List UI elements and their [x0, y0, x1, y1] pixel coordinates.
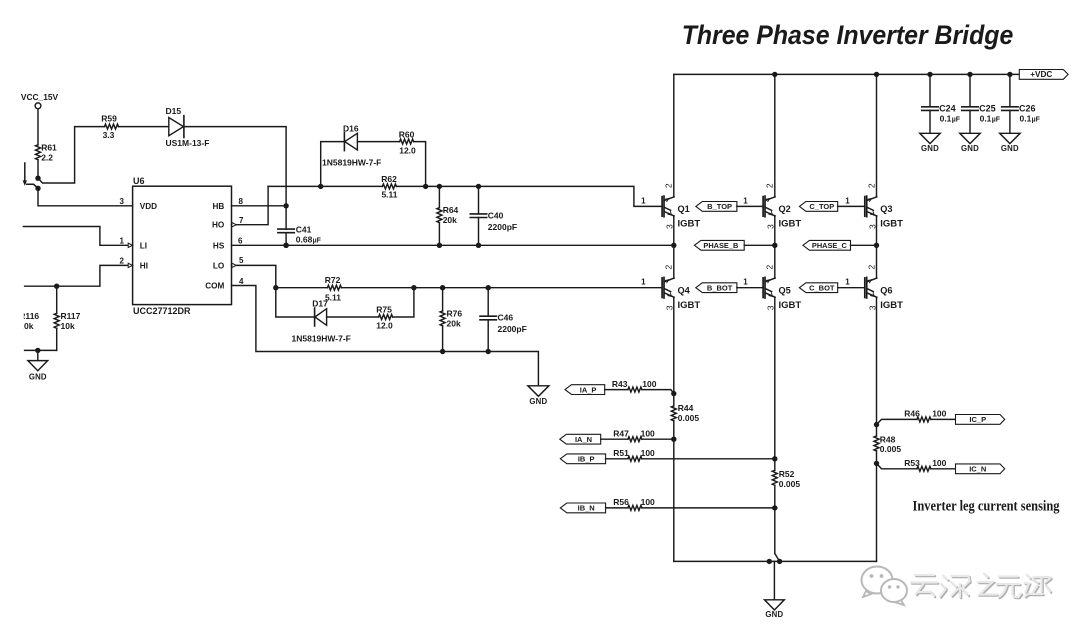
svg-text:20k: 20k — [447, 319, 461, 329]
svg-text:COM: COM — [205, 282, 224, 291]
wire IA_P with resistor R43 — [605, 389, 628, 391]
resistor R76 — [440, 288, 462, 352]
node rail left — [767, 559, 772, 564]
svg-text:100: 100 — [932, 409, 946, 419]
node C46 top — [486, 285, 491, 290]
ground GND main — [765, 561, 785, 619]
capacitor C26 — [1002, 74, 1040, 133]
resistor R72 — [325, 275, 342, 302]
wire Q1 emitter to phase B node — [673, 216, 675, 245]
net label PHASE_B — [694, 240, 744, 250]
svg-text:10k: 10k — [61, 321, 75, 331]
net label IC_P — [956, 415, 1005, 425]
wire top gate net — [268, 185, 382, 187]
wire IB_N with resistor R56 — [606, 507, 628, 509]
svg-text:Q2: Q2 — [779, 204, 791, 214]
node IB_P tap — [772, 456, 777, 461]
svg-text:R53: R53 — [904, 458, 920, 468]
svg-text:1: 1 — [845, 278, 850, 287]
node LO junction — [273, 285, 278, 290]
wire PHASE_C to leg C — [851, 244, 877, 246]
resistor R56 — [613, 497, 655, 510]
svg-text:6: 6 — [238, 236, 243, 245]
resistor R75 — [376, 304, 393, 330]
net label B_TOP — [696, 202, 737, 212]
wire Q4 collector — [673, 245, 675, 278]
svg-text:HO: HO — [212, 221, 225, 230]
wire VDD net — [38, 188, 133, 206]
svg-text:C_BOT: C_BOT — [809, 283, 835, 292]
svg-text:2: 2 — [664, 183, 674, 188]
node HS C41 — [283, 243, 288, 248]
transistor Q5 — [763, 264, 801, 310]
wire R116 R117 bottoms — [25, 349, 57, 351]
svg-text:C26: C26 — [1019, 103, 1036, 113]
node rail C26 — [1007, 72, 1012, 77]
ground GND2 — [528, 386, 549, 397]
ground GND1 — [28, 350, 48, 381]
output arrow LO — [232, 263, 236, 267]
svg-text:100: 100 — [641, 497, 655, 507]
watermark wechat icon — [862, 567, 908, 606]
wire LO pin 5 — [232, 265, 276, 287]
svg-text:5: 5 — [239, 256, 244, 265]
svg-text:0.005: 0.005 — [779, 479, 801, 489]
transistor Q6 — [865, 264, 903, 310]
resistor R60 — [399, 129, 416, 155]
resistor R51 — [613, 448, 655, 461]
svg-text:8: 8 — [239, 197, 244, 206]
svg-text:3: 3 — [766, 305, 776, 310]
resistor R47 — [613, 428, 655, 441]
svg-text:3: 3 — [665, 305, 675, 310]
svg-text:2200pF: 2200pF — [488, 222, 517, 232]
wire COM pin 4 rail — [232, 286, 539, 386]
wire bottom sense rail — [674, 560, 877, 562]
node C46 bottom — [486, 349, 491, 354]
svg-text:IGBT: IGBT — [779, 219, 802, 230]
svg-text:5.11: 5.11 — [381, 189, 397, 199]
svg-text:GND: GND — [961, 144, 979, 153]
wire IA_N with resistor R47 — [601, 438, 628, 440]
node rail Q2 — [772, 72, 777, 77]
svg-text:2200pF: 2200pF — [498, 324, 527, 334]
svg-text:D17: D17 — [312, 298, 328, 308]
node rail Q3 — [874, 72, 879, 77]
node C40 top — [476, 184, 481, 189]
svg-text:R56: R56 — [613, 497, 629, 507]
wire D15 to HB node — [184, 127, 286, 206]
node R76 bottom — [440, 349, 445, 354]
net label PHASE_C — [803, 240, 851, 250]
svg-text:HS: HS — [213, 241, 225, 250]
svg-text:Q1: Q1 — [678, 204, 690, 214]
ground GND C26 — [1000, 133, 1020, 143]
node C40 bottom — [476, 243, 481, 248]
wire Q3 collector — [876, 74, 878, 196]
node IC_N tap — [874, 461, 879, 466]
svg-text:1: 1 — [743, 278, 748, 287]
ground GND C24 — [920, 133, 940, 143]
node IC_P tap — [874, 422, 879, 427]
svg-text:R62: R62 — [381, 174, 397, 184]
svg-text:GND: GND — [921, 144, 939, 153]
net label C_TOP — [799, 202, 837, 212]
op-amp U6 gate driver UCC27712DR — [133, 176, 232, 316]
wire +VDC rail — [674, 73, 1020, 75]
svg-text:VDD: VDD — [140, 202, 157, 211]
wire node A1 to R59 — [38, 127, 105, 183]
wire R52 to bottom rail — [774, 485, 776, 553]
svg-text:IGBT: IGBT — [779, 300, 802, 311]
net label IB_N — [560, 503, 605, 513]
svg-text:IC_N: IC_N — [969, 464, 986, 473]
wire PHASE_B to leg B — [744, 244, 775, 246]
svg-text:3: 3 — [867, 224, 877, 229]
wire Q2 emitter — [774, 216, 776, 245]
diode D16 — [322, 123, 381, 167]
svg-text:GND: GND — [529, 397, 547, 406]
node C41 bottom — [283, 243, 288, 248]
svg-text:IC_P: IC_P — [969, 415, 986, 424]
svg-text:12.0: 12.0 — [399, 145, 416, 155]
resistor R62 — [381, 174, 398, 199]
svg-text:0.005: 0.005 — [678, 413, 700, 423]
net label IA_N — [560, 434, 601, 444]
svg-text:R52: R52 — [779, 469, 795, 479]
svg-text:2: 2 — [664, 264, 674, 269]
svg-text:R75: R75 — [376, 304, 392, 314]
ground GND C25 — [960, 133, 980, 143]
net label IC_N — [956, 464, 1005, 474]
svg-text:2: 2 — [120, 257, 125, 266]
svg-text:D15: D15 — [166, 106, 182, 116]
svg-text:2: 2 — [866, 264, 876, 269]
svg-text:100: 100 — [641, 428, 655, 438]
node phase A midpoint — [671, 243, 676, 248]
node R75 riser — [411, 285, 416, 290]
svg-text:2: 2 — [765, 183, 775, 188]
node R76 top — [440, 285, 445, 290]
wire D16 branch — [321, 142, 345, 187]
svg-text:2.2: 2.2 — [41, 153, 53, 163]
resistor R48 shunt — [874, 435, 901, 455]
svg-text:R48: R48 — [880, 435, 896, 445]
svg-text:100: 100 — [642, 379, 656, 389]
clipped transistor emitter at left edge — [23, 163, 38, 188]
capacitor C46 — [480, 288, 527, 352]
svg-text:U6: U6 — [133, 176, 145, 186]
resistor R46 — [904, 409, 946, 422]
svg-text:IA_P: IA_P — [580, 385, 597, 394]
wire R43 to leg A — [642, 390, 674, 394]
output arrow HO — [232, 223, 236, 227]
svg-text:C_TOP: C_TOP — [809, 202, 834, 211]
svg-text:D16: D16 — [343, 123, 359, 133]
power flag +VDC — [1019, 70, 1068, 80]
resistor R117 — [54, 286, 80, 350]
svg-text:IGBT: IGBT — [880, 219, 903, 230]
node rail right — [777, 559, 782, 564]
svg-text:3: 3 — [867, 305, 877, 310]
wire HO pin 7 riser — [232, 186, 269, 224]
resistor R44 shunt — [671, 403, 699, 423]
svg-text:1N5819HW-7-F: 1N5819HW-7-F — [292, 333, 351, 343]
wire IC_P with resistor R46 — [877, 419, 917, 424]
svg-text:1: 1 — [743, 196, 748, 205]
svg-text:IB_P: IB_P — [578, 455, 595, 464]
resistor R64 — [437, 186, 459, 245]
node R117 top — [54, 284, 59, 289]
wire B_BOT to Q5 gate — [737, 287, 763, 289]
svg-text:1: 1 — [641, 196, 646, 205]
svg-text:1: 1 — [845, 196, 850, 205]
node D16 left — [318, 184, 323, 189]
wire C_TOP to Q3 gate — [838, 205, 865, 207]
capacitor C24 — [922, 74, 960, 133]
input arrow HI — [128, 263, 132, 267]
wire R47 to leg A — [642, 438, 674, 440]
svg-text:HB: HB — [212, 202, 224, 211]
svg-text:GND: GND — [1001, 144, 1019, 153]
power port VCC_15V — [21, 92, 59, 109]
wire R60 to gate net — [414, 142, 426, 187]
svg-text:GND: GND — [765, 610, 783, 619]
wire HB pin 8 — [232, 205, 287, 207]
svg-text:R47: R47 — [613, 428, 629, 438]
node rail C25 — [967, 72, 972, 77]
wire Q6 collector — [876, 245, 878, 278]
svg-text:R61: R61 — [41, 143, 57, 153]
resistor R43 — [612, 379, 657, 392]
svg-text:R59: R59 — [101, 113, 117, 123]
svg-text:3: 3 — [665, 224, 675, 229]
svg-text:R51: R51 — [613, 448, 629, 458]
svg-text:C46: C46 — [498, 313, 514, 323]
svg-text:R64: R64 — [443, 205, 459, 215]
wire R59 to D15 — [119, 126, 169, 128]
wire low gate net to Q4 gate — [341, 287, 662, 289]
wire top gate net continued to Q1 gate — [396, 186, 662, 206]
input arrow LI — [128, 243, 132, 247]
svg-text:B_TOP: B_TOP — [707, 202, 732, 211]
node D16 right — [423, 184, 428, 189]
net label B_BOT — [696, 283, 737, 293]
svg-text:R44: R44 — [678, 403, 694, 413]
svg-text:R117: R117 — [61, 311, 81, 321]
svg-text:Q4: Q4 — [678, 286, 691, 296]
svg-text:100: 100 — [932, 458, 946, 468]
wire Q1 collector — [673, 74, 675, 196]
wire IC_N with resistor R53 — [877, 463, 917, 468]
wire R56 to leg B — [642, 507, 775, 509]
svg-text:Q3: Q3 — [880, 204, 892, 214]
svg-text:7: 7 — [239, 216, 244, 225]
capacitor C41 — [278, 206, 321, 246]
capacitor C25 — [962, 74, 1000, 133]
node IA_P tap — [671, 391, 676, 396]
svg-text:PHASE_B: PHASE_B — [703, 241, 738, 250]
svg-text:1: 1 — [641, 278, 646, 287]
svg-text:HI: HI — [140, 261, 148, 270]
svg-text:R72: R72 — [325, 275, 341, 285]
svg-text:2: 2 — [866, 183, 876, 188]
svg-text:100: 100 — [641, 448, 655, 458]
node phase C midpoint — [874, 243, 879, 248]
wire Q5 emitter leg — [774, 297, 776, 470]
wire Q3 emitter — [876, 216, 878, 245]
svg-text:UCC27712DR: UCC27712DR — [133, 306, 191, 316]
svg-text:20k: 20k — [443, 215, 457, 225]
node R64 top — [437, 184, 442, 189]
resistor R61 — [36, 143, 58, 163]
wire C_BOT to Q6 gate — [838, 287, 865, 289]
svg-text:IB_N: IB_N — [578, 504, 595, 513]
svg-text:Three Phase Inverter Bridge: Three Phase Inverter Bridge — [682, 20, 1014, 50]
svg-text:GND: GND — [29, 372, 47, 381]
node R64 bottom — [437, 243, 442, 248]
svg-text:IA_N: IA_N — [575, 435, 592, 444]
node rail C24 — [927, 72, 932, 77]
wire R48 to bottom rail — [876, 451, 878, 561]
svg-text:1: 1 — [120, 236, 125, 245]
svg-text:IGBT: IGBT — [678, 300, 701, 311]
svg-text:3: 3 — [120, 197, 125, 206]
wire R44 to leg bottom — [673, 421, 675, 562]
transistor Q3 — [865, 183, 903, 229]
resistor R52 shunt — [772, 469, 800, 489]
svg-text:IGBT: IGBT — [678, 219, 701, 230]
node IA_N tap — [671, 437, 676, 442]
svg-text:US1M-13-F: US1M-13-F — [166, 138, 210, 148]
net label IB_P — [560, 454, 605, 464]
node phase B midpoint — [772, 243, 777, 248]
svg-text:LO: LO — [213, 261, 225, 270]
resistor R59 — [101, 113, 118, 140]
wire D16 to R60 — [357, 141, 399, 143]
svg-text:12.0: 12.0 — [376, 321, 393, 331]
resistor R116 clipped at edge — [19, 311, 39, 331]
net label C_BOT — [799, 283, 837, 293]
wire Q2 collector — [774, 74, 776, 196]
wire HS pin 6 to phase B leg — [232, 244, 674, 246]
svg-text:C40: C40 — [488, 210, 504, 220]
net label IA_P — [565, 385, 605, 395]
wire Q6 emitter leg — [876, 297, 878, 436]
wire HI input — [25, 265, 133, 286]
wire D17 to R75 — [327, 316, 379, 318]
node HB junction — [283, 203, 288, 208]
svg-text:3: 3 — [766, 224, 776, 229]
wire IB_P with resistor R51 — [606, 458, 628, 460]
transistor Q4 — [662, 264, 700, 310]
transistor Q1 — [662, 183, 700, 229]
svg-text:B_BOT: B_BOT — [707, 283, 733, 292]
wire VCC_15V to R61 — [37, 109, 39, 145]
svg-text:IGBT: IGBT — [880, 300, 903, 311]
svg-text:Q6: Q6 — [880, 286, 892, 296]
svg-text:R43: R43 — [612, 379, 628, 389]
svg-text:PHASE_C: PHASE_C — [812, 241, 848, 250]
wire B_TOP to Q2 gate — [737, 205, 763, 207]
capacitor C40 — [470, 186, 517, 245]
diode D15 — [166, 106, 210, 148]
node IB_N tap — [772, 505, 777, 510]
wire R51 to leg B — [642, 458, 775, 460]
wire R53 to IC_N flag — [931, 468, 956, 470]
wire LI input — [23, 227, 132, 246]
svg-text:R60: R60 — [399, 129, 415, 139]
wire Q4 emitter leg — [673, 297, 675, 406]
svg-text:Q5: Q5 — [779, 286, 791, 296]
watermark text yun shen zhi wu ji — [912, 575, 1051, 599]
wire low gate net — [276, 287, 328, 289]
svg-text:VCC_15V: VCC_15V — [21, 92, 59, 102]
node A2 — [35, 186, 40, 191]
svg-text:C25: C25 — [979, 103, 996, 113]
wire leg B diagonal to rail — [775, 554, 780, 562]
wire D17 branch — [276, 288, 315, 317]
wire Q5 collector — [774, 245, 776, 278]
wire R75 to gate net — [393, 288, 414, 317]
svg-text:C41: C41 — [296, 224, 312, 234]
resistor R53 — [904, 458, 946, 471]
svg-text:R76: R76 — [447, 309, 463, 319]
wire R61 to node A1 — [37, 160, 39, 178]
svg-text:0.005: 0.005 — [880, 444, 902, 454]
svg-text:R46: R46 — [904, 409, 920, 419]
node GND1 junction — [35, 348, 40, 353]
diode D17 — [292, 298, 351, 343]
transistor Q2 — [763, 183, 801, 229]
wire R46 to IC_P flag — [931, 418, 956, 420]
svg-text:1N5819HW-7-F: 1N5819HW-7-F — [322, 157, 381, 167]
svg-text:Inverter leg current sensing: Inverter leg current sensing — [913, 498, 1060, 514]
svg-text:2: 2 — [765, 264, 775, 269]
svg-text:LI: LI — [140, 241, 147, 250]
svg-text:C24: C24 — [939, 103, 956, 113]
node A1 — [35, 176, 40, 181]
svg-text:4: 4 — [239, 277, 244, 286]
svg-text:3.3: 3.3 — [103, 130, 115, 140]
svg-text:+VDC: +VDC — [1030, 70, 1052, 79]
